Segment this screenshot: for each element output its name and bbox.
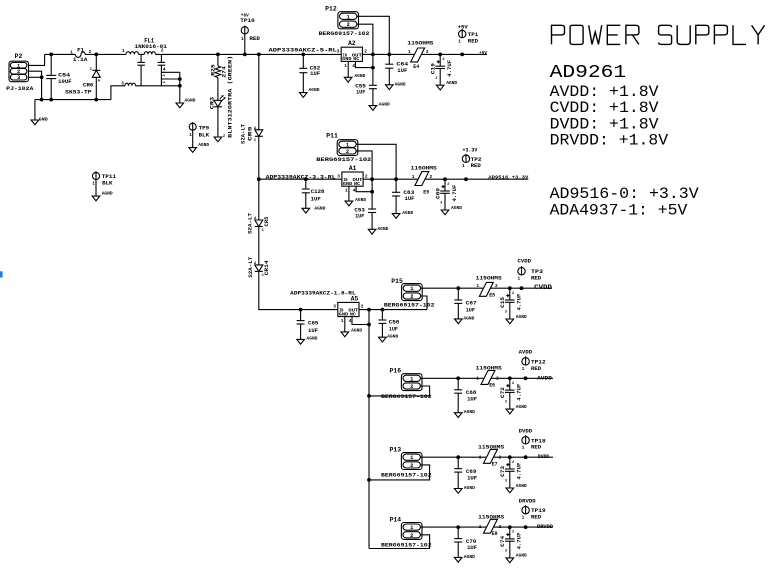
svg-text:2: 2: [410, 294, 413, 300]
svg-text:DRVDD: DRVDD: [519, 499, 536, 505]
svg-text:DRVDD: +1.8V: DRVDD: +1.8V: [550, 132, 669, 150]
svg-text:3: 3: [505, 550, 507, 554]
svg-text:E6: E6: [489, 382, 495, 388]
svg-text:C: C: [254, 139, 256, 143]
svg-text:115OHMS: 115OHMS: [407, 40, 433, 46]
svg-text:2: 2: [223, 135, 225, 139]
svg-text:AD9261: AD9261: [550, 63, 627, 83]
svg-text:GND: GND: [39, 116, 48, 122]
junction: [301, 53, 305, 57]
blue cursor artifact at left edge: [0, 271, 3, 277]
svg-text:NC: NC: [350, 311, 356, 317]
svg-text:1UF: 1UF: [356, 89, 365, 95]
svg-text:1: 1: [344, 63, 347, 69]
svg-text:DVDD: DVDD: [538, 453, 550, 460]
wire AVDD jumper rail: [420, 377, 553, 379]
svg-text:2: 2: [512, 292, 514, 296]
wire P11 pin1 down to output rail: [356, 144, 396, 179]
junction: [94, 53, 98, 57]
svg-text:AGND: AGND: [395, 81, 406, 87]
ground rail (bottom): [35, 99, 111, 101]
junction: [367, 478, 371, 482]
ground AGND (A5): [341, 328, 362, 337]
svg-text:RED: RED: [531, 515, 541, 521]
svg-text:DVDD: DVDD: [519, 429, 533, 435]
svg-text:2: 2: [364, 49, 367, 55]
svg-text:AGND: AGND: [102, 191, 113, 197]
svg-text:1UF: 1UF: [389, 327, 398, 333]
svg-text:AGND: AGND: [451, 205, 462, 211]
svg-text:3: 3: [17, 75, 20, 81]
svg-text:AGND: AGND: [516, 404, 527, 410]
svg-text:AGND: AGND: [307, 336, 318, 342]
diode CR9 S2A-LT: [241, 124, 263, 144]
ferrite bead E6 115OHMS: [476, 366, 502, 389]
svg-text:4: 4: [349, 318, 352, 324]
wire to GND symbol: [34, 100, 36, 120]
svg-text:AVDD: AVDD: [519, 350, 533, 356]
svg-text:3: 3: [337, 173, 340, 179]
svg-text:PJ-102A: PJ-102A: [6, 86, 34, 92]
svg-text:2: 2: [499, 454, 502, 460]
junction: [456, 286, 460, 290]
svg-text:CVDD: CVDD: [534, 284, 552, 291]
wire P2 pin3 to ground: [29, 76, 42, 78]
ferrite bead E7 115OHMS: [478, 445, 504, 468]
svg-text:TP1: TP1: [468, 32, 479, 38]
svg-text:C70: C70: [466, 539, 476, 545]
wire 3.3V regulator input rail: [259, 178, 342, 180]
svg-text:4.7UF: 4.7UF: [447, 60, 453, 77]
svg-text:S2A-LT: S2A-LT: [248, 213, 254, 234]
svg-text:CR3: CR3: [209, 97, 215, 109]
capacitor C74 (polarized 4.7UF): [500, 527, 527, 563]
svg-text:1: 1: [189, 132, 192, 138]
svg-text:10UF: 10UF: [58, 79, 71, 85]
junction: [178, 84, 182, 88]
svg-text:1: 1: [476, 375, 479, 381]
svg-text:2: 2: [442, 58, 444, 62]
junction: [367, 394, 371, 398]
svg-text:3: 3: [505, 401, 507, 405]
test point TP19 (DRVDD) RED: [519, 499, 546, 521]
junction: [460, 53, 464, 57]
svg-text:1UF: 1UF: [405, 196, 415, 202]
wire CVDD jumper rail: [421, 287, 552, 289]
svg-text:BERG69157-102: BERG69157-102: [381, 394, 432, 400]
svg-text:C65: C65: [308, 320, 318, 326]
junction: [178, 77, 182, 81]
wire FL1 shield to AGND: [179, 72, 181, 103]
svg-text:2: 2: [365, 173, 368, 179]
junction: [49, 53, 53, 57]
svg-text:1UF: 1UF: [308, 328, 318, 334]
test point TP9 BLK: [189, 122, 210, 148]
svg-text:C73: C73: [500, 466, 506, 477]
wire top rail FL1 to regulator input: [155, 53, 341, 55]
wire +6V rail down to diode chain: [258, 54, 260, 129]
svg-text:C15: C15: [500, 297, 506, 308]
svg-text:BLK: BLK: [102, 180, 113, 186]
svg-text:SK53-TP: SK53-TP: [65, 89, 91, 95]
svg-text:P13: P13: [390, 447, 402, 454]
svg-text:C64: C64: [396, 61, 408, 67]
svg-text:3: 3: [333, 304, 336, 310]
capacitor C65: [297, 310, 319, 345]
svg-text:E5: E5: [489, 293, 495, 299]
svg-text:2: 2: [496, 375, 499, 381]
capacitor C60 (polarized 4.7UF): [435, 179, 462, 215]
svg-text:AD9516_+3.3V: AD9516_+3.3V: [488, 174, 528, 180]
svg-text:DRVDD: DRVDD: [537, 523, 554, 530]
svg-text:RED: RED: [468, 38, 478, 44]
svg-text:C128: C128: [311, 189, 325, 195]
filter FL1 1NK016-01 common-mode choke: [121, 38, 167, 87]
junction: [49, 98, 53, 102]
svg-text:CR5: CR5: [264, 217, 270, 227]
svg-text:RED: RED: [471, 163, 481, 169]
svg-text:1: 1: [479, 524, 482, 530]
capacitor C15 (polarized 4.7UF): [500, 288, 527, 324]
svg-text:CVDD: CVDD: [518, 259, 532, 265]
svg-text:AGND: AGND: [464, 485, 475, 491]
ground AGND (C67): [455, 319, 463, 324]
svg-text:P15: P15: [391, 278, 403, 285]
regulator A5 ADP3339AKCZ-1.8-RL: [290, 291, 364, 324]
capacitor C69: [454, 457, 477, 493]
svg-text:1: 1: [410, 376, 413, 382]
svg-text:BERG69157-102: BERG69157-102: [381, 543, 432, 549]
svg-text:TP9: TP9: [199, 125, 210, 131]
diode CR5 S2A-LT: [248, 213, 271, 234]
wire 1.8V distribution bus (vertical): [368, 310, 370, 549]
capacitor C53 1UF: [354, 208, 388, 233]
junction: [216, 53, 220, 57]
wire A1 NC pin: [356, 186, 372, 192]
junction: [304, 177, 308, 181]
regulator A1 ADP3339AKCZ-3.3-RL: [266, 165, 368, 194]
junction: [508, 376, 512, 380]
svg-text:2: 2: [512, 382, 514, 386]
junction: [381, 308, 385, 312]
junction: [508, 286, 512, 290]
svg-text:1UF: 1UF: [310, 71, 320, 77]
svg-text:4: 4: [352, 63, 355, 69]
capacitor C70: [454, 527, 477, 562]
wire P11 pin2 down through rail to C53: [356, 151, 372, 209]
capacitor C67 1UF: [454, 288, 476, 321]
svg-text:C19: C19: [431, 63, 437, 74]
wire DVDD jumper rail: [420, 456, 553, 458]
svg-text:TP19: TP19: [531, 508, 546, 514]
svg-text:4.7UF: 4.7UF: [452, 185, 458, 202]
svg-text:1UF: 1UF: [311, 197, 321, 203]
wire P13 pin2 to 1.8V bus: [369, 465, 430, 480]
wire P2 pin2 down to ground rail: [29, 71, 42, 99]
svg-text:115OHMS: 115OHMS: [476, 275, 502, 281]
svg-text:1: 1: [522, 366, 525, 372]
svg-text:C60: C60: [435, 188, 441, 199]
connector P12 (BERG69157-102 2-pin header): [319, 6, 370, 37]
wire P12 pin1 down to output rail: [357, 16, 389, 54]
wire P15 pin2 to regulator output: [421, 296, 427, 310]
svg-text:AGND: AGND: [354, 73, 365, 79]
svg-text:E7: E7: [492, 461, 498, 467]
svg-text:BLK: BLK: [199, 132, 210, 138]
wire P16 pin2 to 1.8V bus: [369, 386, 430, 396]
svg-text:C: C: [262, 229, 264, 233]
junction: [508, 525, 512, 529]
junction: [94, 98, 98, 102]
svg-text:1: 1: [479, 454, 482, 460]
svg-text:E9: E9: [423, 190, 429, 196]
svg-text:1: 1: [347, 14, 350, 20]
junction: [387, 53, 391, 57]
svg-text:4: 4: [163, 67, 166, 72]
connector P2 (PJ-102A power jack): [6, 53, 34, 92]
svg-text:1: 1: [410, 525, 413, 531]
svg-text:AGND: AGND: [446, 80, 457, 86]
svg-text:AGND: AGND: [464, 409, 475, 415]
svg-text:R25: R25: [210, 64, 216, 76]
svg-text:BERG69157-102: BERG69157-102: [381, 473, 432, 479]
ground AGND (A1): [345, 197, 366, 206]
ground GND: [31, 116, 48, 125]
svg-text:RED: RED: [531, 276, 541, 282]
ferrite bead E5 115OHMS: [476, 275, 502, 298]
junction: [394, 177, 398, 181]
svg-text:P2: P2: [15, 53, 23, 60]
svg-text:BERG69157-102: BERG69157-102: [316, 157, 371, 163]
svg-text:AGND: AGND: [198, 142, 209, 148]
test point TP11 BLK: [92, 171, 116, 196]
wire CR5 to CR14: [258, 227, 260, 265]
ground AGND (C63): [392, 214, 400, 219]
svg-text:AGND: AGND: [185, 98, 196, 104]
junction: [371, 53, 375, 57]
svg-text:C72: C72: [500, 387, 506, 398]
ground AGND (TP11): [92, 191, 113, 201]
svg-text:1UF: 1UF: [355, 214, 364, 220]
capacitor C52: [299, 54, 320, 97]
junction: [257, 177, 261, 181]
wire node to CR5: [258, 179, 260, 220]
svg-text:AVDD: AVDD: [537, 374, 553, 381]
ground AGND (C55): [369, 106, 377, 111]
wire CR9 to 3.3V regulator input node: [258, 136, 260, 179]
svg-text:AGND: AGND: [379, 101, 390, 107]
svg-text:AGND: AGND: [463, 315, 474, 321]
wire FL1 shield stub lower: [161, 78, 179, 80]
test point TP2 (+3.3V) RED: [462, 148, 482, 170]
svg-text:TP18: TP18: [531, 438, 546, 444]
svg-text:F1: F1: [77, 47, 84, 53]
ferrite bead E9 115OHMS: [411, 166, 437, 196]
svg-text:1UF: 1UF: [466, 308, 475, 314]
svg-text:1: 1: [341, 318, 344, 324]
svg-text:C68: C68: [466, 390, 476, 396]
connector P14 (BERG69157-102 2-pin header): [381, 517, 432, 549]
wire A1 GND pin to AGND: [348, 186, 350, 201]
svg-text:C: C: [90, 68, 92, 72]
svg-text:NC: NC: [354, 181, 360, 187]
wire P2 pin1 to +6V rail: [29, 54, 45, 65]
diode CR6 SK53-TP: [65, 54, 101, 99]
svg-text:A2: A2: [348, 40, 356, 47]
svg-text:AGND: AGND: [351, 328, 362, 334]
wire P12 pin2 down through rail to C55: [357, 24, 373, 85]
svg-text:C63: C63: [403, 190, 414, 196]
svg-text:E8: E8: [492, 531, 498, 537]
svg-text:2: 2: [499, 524, 502, 530]
capacitor C68: [454, 378, 477, 417]
capacitor C73 (polarized 4.7UF): [500, 457, 527, 493]
wire A5 GND pin to AGND: [344, 317, 346, 332]
svg-text:TP3: TP3: [531, 269, 543, 275]
svg-text:C58: C58: [389, 320, 400, 326]
test point TP10 (+6V) RED: [240, 14, 260, 55]
capacitor C72 (polarized 4.7UF): [500, 378, 527, 414]
junction: [524, 455, 528, 459]
svg-text:BERG69157-102: BERG69157-102: [319, 31, 370, 37]
svg-text:C74: C74: [500, 536, 506, 547]
junction: [456, 525, 460, 529]
svg-text:CR14: CR14: [264, 260, 270, 275]
svg-text:RED: RED: [531, 366, 541, 372]
wire A2 GND pin to AGND: [347, 61, 349, 77]
fuse F1 1.1A: [70, 47, 91, 63]
svg-text:AGND: AGND: [464, 554, 475, 560]
svg-text:4.7UF: 4.7UF: [517, 463, 523, 480]
svg-text:AGND: AGND: [355, 197, 366, 203]
svg-text:1: 1: [458, 38, 461, 44]
svg-text:1UF: 1UF: [467, 396, 477, 402]
svg-text:AGND: AGND: [516, 553, 527, 559]
svg-text:E4: E4: [413, 64, 419, 70]
svg-text:+5V: +5V: [458, 24, 468, 30]
svg-text:1: 1: [410, 286, 413, 292]
svg-text:3: 3: [505, 311, 507, 315]
wire CR14 to 1.8V regulator input: [259, 271, 338, 309]
svg-text:4.7UF: 4.7UF: [517, 294, 523, 311]
svg-text:GND: GND: [342, 56, 352, 62]
svg-text:ADP3339AKCZ-3.3-RL: ADP3339AKCZ-3.3-RL: [266, 174, 336, 180]
junction: [524, 525, 528, 529]
ground AGND (CR3): [214, 137, 222, 142]
svg-text:AGND: AGND: [387, 334, 398, 340]
title POWER SUPPLY: [552, 25, 765, 44]
svg-text:4: 4: [353, 188, 356, 194]
svg-text:CR9: CR9: [247, 127, 253, 142]
ground AGND (FL1): [176, 98, 196, 108]
svg-text:AGND: AGND: [402, 210, 413, 216]
svg-text:P12: P12: [325, 6, 337, 13]
junction: [299, 308, 303, 312]
junction: [520, 286, 524, 290]
wire P14 pin2 to 1.8V bus: [369, 535, 430, 549]
svg-text:C67: C67: [466, 301, 477, 307]
svg-text:P16: P16: [390, 368, 402, 375]
junction: [508, 455, 512, 459]
capacitor C63 1UF: [392, 179, 414, 216]
junction: [438, 53, 442, 57]
svg-text:2: 2: [447, 183, 449, 187]
junction: [464, 177, 468, 181]
svg-text:1: 1: [241, 36, 244, 42]
junction: [456, 455, 460, 459]
svg-text:TP10: TP10: [240, 18, 254, 24]
junction: [371, 66, 375, 70]
svg-text:AD9516-0: +3.3V: AD9516-0: +3.3V: [550, 185, 700, 203]
svg-text:1UF: 1UF: [467, 545, 477, 551]
svg-text:3: 3: [121, 81, 124, 86]
svg-text:CVDD: +1.8V: CVDD: +1.8V: [550, 99, 659, 117]
svg-text:4.7UF: 4.7UF: [517, 384, 523, 401]
wire ground rail step up to FL1 pin3: [111, 86, 125, 100]
junction: [370, 177, 374, 181]
connector P13 (BERG69157-102 2-pin header): [381, 447, 432, 479]
LED CR3 BLNT312GRTRA (GREEN): [209, 56, 233, 139]
ground AGND (A2): [344, 73, 365, 82]
junction: [367, 308, 371, 312]
junction: [367, 323, 371, 327]
svg-text:1: 1: [522, 445, 525, 451]
capacitor C58 1UF: [378, 310, 399, 340]
svg-text:P14: P14: [390, 517, 402, 524]
svg-text:1: 1: [518, 276, 521, 282]
junction: [370, 190, 374, 194]
svg-text:RED: RED: [249, 36, 260, 42]
svg-text:2: 2: [426, 49, 429, 55]
FL1 shield pin marks: [163, 74, 167, 83]
svg-text:2: 2: [410, 463, 413, 469]
svg-text:2: 2: [512, 461, 514, 465]
ferrite bead E8 115OHMS: [478, 515, 504, 538]
svg-text:2: 2: [512, 531, 514, 535]
ferrite bead E4 115OHMS: [407, 40, 433, 70]
capacitor C64 1UF: [385, 54, 408, 87]
svg-text:A5: A5: [351, 295, 359, 302]
svg-text:+3.3V: +3.3V: [463, 148, 478, 154]
svg-text:AGND: AGND: [516, 314, 527, 320]
svg-text:S2A-LT: S2A-LT: [241, 124, 247, 144]
svg-text:C54: C54: [58, 72, 70, 78]
connector P15 (BERG69157-102 2-pin header): [384, 278, 435, 309]
ground AGND (C53): [368, 229, 376, 234]
svg-text:1: 1: [408, 49, 411, 55]
junction: [40, 98, 44, 102]
connector P16 (BERG69157-102 2-pin header): [381, 368, 432, 400]
test point TP3 (CVDD) RED: [518, 259, 544, 282]
wire +3.3V output rail: [363, 178, 528, 180]
regulator A2 ADP3339AKCZ-5-RL: [269, 40, 368, 69]
svg-text:2: 2: [361, 304, 364, 310]
ground AGND (TP9): [189, 142, 210, 152]
ground AGND (C58): [379, 337, 387, 342]
svg-text:1: 1: [70, 50, 73, 55]
svg-text:2: 2: [410, 533, 413, 539]
svg-text:+5V: +5V: [479, 50, 487, 56]
ground AGND (C64): [386, 85, 394, 90]
svg-text:3: 3: [505, 480, 507, 484]
svg-text:4.7UF: 4.7UF: [517, 533, 523, 550]
capacitor C19 (polarized 4.7UF): [431, 54, 458, 90]
svg-text:2: 2: [495, 283, 498, 289]
connector P11 (BERG69157-102 2-pin header): [316, 133, 371, 163]
svg-text:1: 1: [345, 188, 348, 194]
test point TP18 (DVDD) RED: [519, 429, 546, 451]
svg-text:S2A-LT: S2A-LT: [248, 257, 254, 278]
